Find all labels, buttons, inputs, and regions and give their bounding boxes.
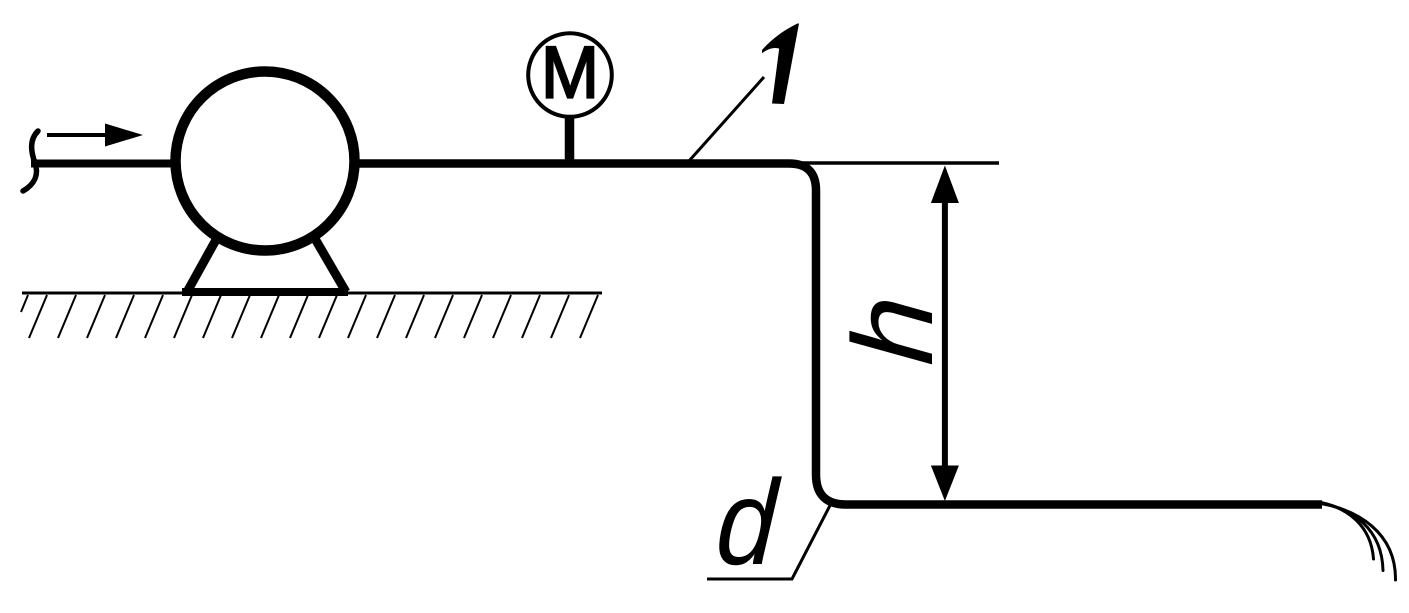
pump support right leg (314, 237, 346, 292)
pump circle (176, 72, 355, 251)
water jet spray curve 1 (1321, 503, 1374, 560)
flow arrow (47, 124, 143, 147)
leader line for label d (707, 505, 831, 580)
manometer circle (528, 33, 612, 117)
svg-text:d: d (713, 456, 784, 591)
manometer stem (565, 115, 575, 162)
leader line for label 1 (689, 77, 764, 161)
pump base (182, 288, 348, 296)
dimension arrowhead top (931, 166, 959, 204)
water jet spray curve 2 (1321, 503, 1383, 571)
ground hatching (21, 295, 598, 338)
datum line (795, 161, 999, 164)
label 1 (762, 24, 799, 105)
svg-text:h: h (830, 292, 957, 369)
dimension line h (942, 198, 948, 470)
dimension arrowhead bottom (931, 466, 959, 502)
inlet pipe (31, 160, 176, 168)
pipe break squiggle (23, 131, 38, 191)
pump support left leg (187, 238, 217, 292)
ground line (22, 292, 602, 295)
water jet spray curve 3 (1321, 504, 1396, 581)
main pipe run (355, 164, 1322, 505)
svg-text:M: M (541, 32, 599, 113)
